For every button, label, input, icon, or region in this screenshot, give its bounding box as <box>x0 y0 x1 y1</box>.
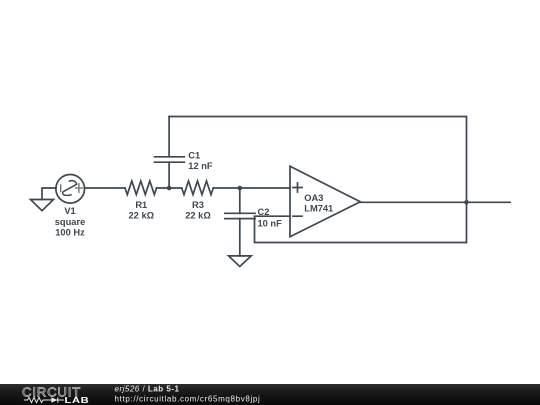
wire R1 to R3 <box>157 187 182 189</box>
svg-text:erj526 / Lab 5-1: erj526 / Lab 5-1 <box>115 385 180 394</box>
svg-text:R3: R3 <box>192 200 204 210</box>
svg-text:V1: V1 <box>64 206 75 216</box>
wire R3 to op-amp <box>213 187 290 189</box>
svg-text:square: square <box>55 217 86 227</box>
svg-text:C2: C2 <box>258 207 270 217</box>
resistor R3 <box>182 181 214 195</box>
svg-text:10 nF: 10 nF <box>258 219 283 229</box>
wire V1 left to ground <box>42 188 56 200</box>
svg-text:22 kΩ: 22 kΩ <box>185 211 211 221</box>
svg-text:22 kΩ: 22 kΩ <box>129 211 155 221</box>
output node <box>464 200 469 205</box>
logo resistor-diode line <box>24 397 64 403</box>
source V1 <box>56 175 85 204</box>
svg-text:LM741: LM741 <box>304 204 333 214</box>
node A <box>167 186 172 191</box>
svg-text:12 nF: 12 nF <box>188 161 213 171</box>
capacitor C1 <box>168 162 170 188</box>
svg-text:R1: R1 <box>135 200 147 210</box>
svg-text:OA3: OA3 <box>304 193 323 203</box>
resistor R1 <box>125 181 157 195</box>
svg-text:http://circuitlab.com/cr65mq8b: http://circuitlab.com/cr65mq8bv8jpj <box>115 394 261 403</box>
feedback wire top <box>169 117 466 203</box>
svg-text:C1: C1 <box>188 150 200 160</box>
op-amp OA3 <box>290 166 360 236</box>
footer bar <box>0 384 540 405</box>
svg-text:LAB: LAB <box>64 396 89 405</box>
capacitor C2 <box>239 188 241 213</box>
node B <box>238 186 243 191</box>
ground <box>31 200 54 211</box>
output wire <box>360 201 510 203</box>
wire V1 to R1 <box>85 187 126 189</box>
wire minus feedback <box>255 202 467 242</box>
svg-text:100 Hz: 100 Hz <box>55 228 85 238</box>
square-wave glyph <box>63 181 77 196</box>
ground C2 <box>229 256 252 267</box>
